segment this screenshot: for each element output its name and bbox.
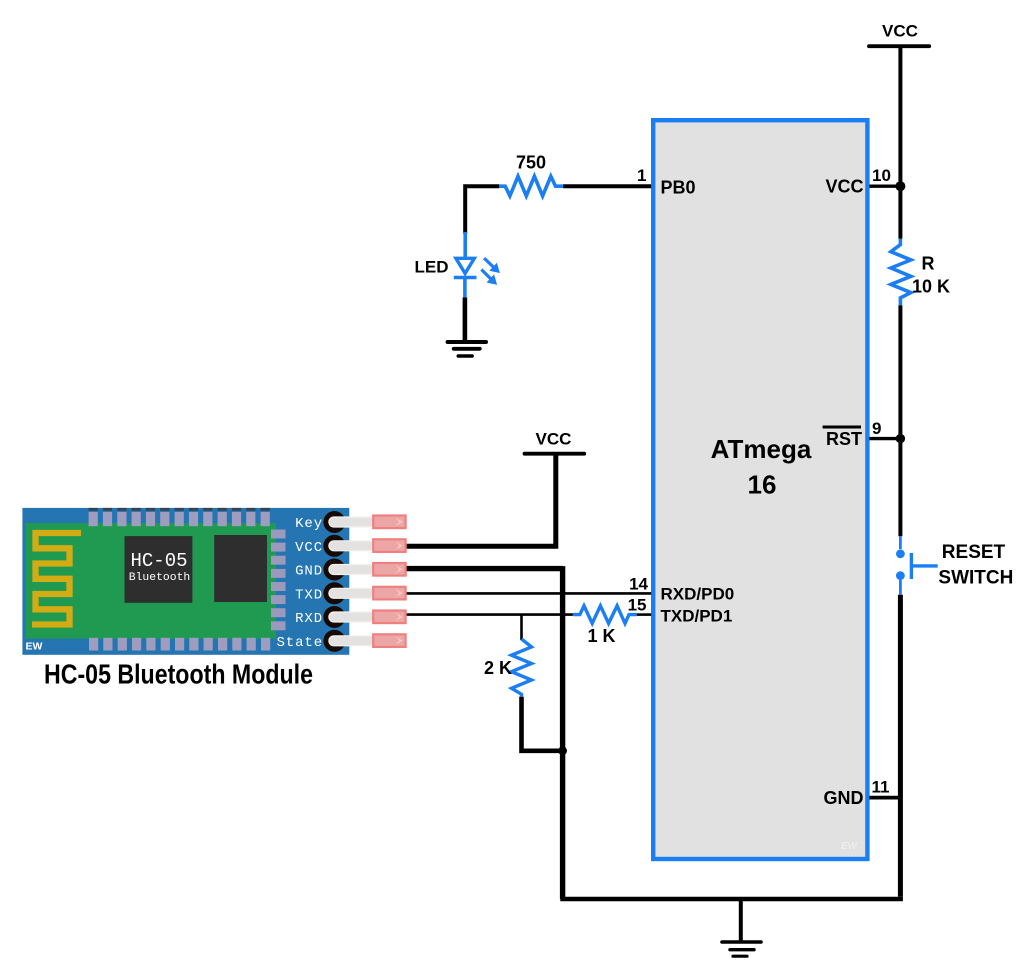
svg-text:RXD/PD0: RXD/PD0 bbox=[661, 585, 735, 604]
wire: LED to ground black bbox=[463, 298, 468, 344]
power symbol VCC (top right) bbox=[869, 22, 929, 47]
pushbutton SW1 bottom contact bbox=[896, 571, 905, 580]
HC-05 solder pads right column bbox=[271, 530, 286, 631]
svg-text:R: R bbox=[922, 254, 935, 274]
svg-text:RST: RST bbox=[826, 429, 862, 449]
HC-05 solder pads top row bbox=[89, 512, 270, 526]
svg-text:Bluetooth: Bluetooth bbox=[129, 572, 191, 584]
svg-text:ATmega: ATmega bbox=[711, 434, 812, 464]
IC U1 name label ATmega 16 bbox=[711, 434, 812, 500]
resistor R 10K bbox=[891, 239, 911, 306]
wire: HC-05 GND pin right then down bbox=[405, 566, 563, 899]
junction node at pin 9 bbox=[896, 434, 905, 443]
HC-05 chip with label bbox=[125, 536, 193, 603]
svg-text:RXD: RXD bbox=[295, 611, 323, 627]
wire: R 10K to RST junction to switch bbox=[898, 306, 902, 537]
LED D1 cathode bar bbox=[454, 276, 477, 280]
wire: HC-05 TXD to pin 14 bbox=[405, 592, 651, 595]
HC-05 header pin tip highlights bbox=[396, 518, 403, 645]
wire: LED cathode blue lead bbox=[463, 278, 467, 299]
svg-text:LED: LED bbox=[415, 258, 449, 277]
HC-05 second chip bbox=[214, 535, 267, 602]
svg-text:11: 11 bbox=[872, 778, 890, 797]
svg-text:1 K: 1 K bbox=[587, 626, 615, 646]
svg-text:750: 750 bbox=[516, 153, 546, 173]
LED D1 triangle bbox=[456, 258, 474, 273]
svg-text:SWITCH: SWITCH bbox=[938, 568, 1013, 589]
svg-text:VCC: VCC bbox=[825, 177, 863, 197]
HC-05 header pin tips bbox=[373, 516, 405, 647]
svg-text:16: 16 bbox=[748, 470, 777, 500]
svg-text:14: 14 bbox=[629, 574, 648, 593]
LED D1 light arrow 1 bbox=[484, 258, 499, 272]
wire: stub to bottom ground symbol bbox=[739, 899, 743, 942]
pushbutton SW1 actuator bbox=[910, 553, 913, 579]
resistor 2 K bbox=[512, 639, 532, 697]
svg-text:10 K: 10 K bbox=[912, 277, 950, 297]
HC-05 through-hole rings bbox=[323, 511, 345, 652]
svg-text:EW: EW bbox=[26, 641, 43, 653]
svg-text:2 K: 2 K bbox=[484, 658, 512, 678]
resistor 750 bbox=[499, 176, 563, 196]
svg-text:HC-05: HC-05 bbox=[130, 550, 187, 572]
wire: 1K to pin 15 bbox=[637, 613, 652, 616]
LED D1 light arrow 2 bbox=[481, 270, 496, 285]
svg-text:VCC: VCC bbox=[882, 22, 918, 41]
HC-05 module PCB (blue board) bbox=[22, 508, 349, 655]
wire: pin 9 RST stub bbox=[869, 437, 900, 440]
IC U1 ATmega16 body bbox=[653, 120, 867, 859]
HC-05 pin name labels bbox=[276, 516, 323, 651]
svg-text:RESET: RESET bbox=[942, 542, 1006, 563]
wire: LED anode blue lead bbox=[463, 232, 467, 257]
svg-text:TXD/PD1: TXD/PD1 bbox=[661, 607, 733, 626]
wire: switch down right side to bottom rail bbox=[898, 595, 903, 897]
wire: pin 10 VCC stub bbox=[869, 184, 900, 187]
wire: pin 11 GND stub bbox=[869, 796, 900, 800]
junction node on GND drop bbox=[558, 746, 567, 755]
HC-05 solder pads bottom row bbox=[89, 638, 270, 651]
wire: HC-05 RXD to 1K resistor bbox=[405, 613, 573, 616]
svg-text:15: 15 bbox=[628, 596, 647, 615]
HC-05 antenna trace bbox=[32, 533, 81, 625]
HC-05 castellation ticks top bbox=[89, 508, 270, 511]
pushbutton SW1 top contact bbox=[899, 536, 902, 549]
svg-text:PB0: PB0 bbox=[661, 178, 696, 198]
svg-text:GND: GND bbox=[824, 788, 864, 808]
ground symbol (LED) bbox=[448, 342, 486, 356]
svg-text:GND: GND bbox=[295, 564, 323, 580]
HC-05 green daughter board bbox=[26, 523, 277, 639]
svg-text:9: 9 bbox=[872, 419, 881, 438]
power symbol VCC (middle) bbox=[525, 430, 585, 454]
wire: PB0 net horizontal (pin 1 to 750 resistor to LED corner) bbox=[465, 186, 651, 234]
svg-text:State: State bbox=[276, 635, 323, 651]
svg-text:1: 1 bbox=[637, 166, 646, 185]
wire: VCC bar down to resistor R bbox=[898, 46, 902, 239]
HC-05 header pin shafts bbox=[329, 517, 375, 646]
junction node at pin 10 bbox=[895, 181, 905, 191]
svg-text:10: 10 bbox=[872, 166, 891, 185]
wire: bottom ground rail bbox=[560, 897, 903, 902]
svg-text:HC-05 Bluetooth Module: HC-05 Bluetooth Module bbox=[44, 659, 313, 690]
resistor 1 K bbox=[573, 606, 637, 624]
wire: 2K bottom elbow to GND drop bbox=[522, 697, 563, 751]
svg-text:TXD: TXD bbox=[295, 588, 323, 604]
wire: RXD net drop to 2K bbox=[520, 615, 523, 640]
ground symbol (bottom) bbox=[722, 942, 761, 956]
wire: VCC mid down and to HC-05 VCC pin bbox=[405, 454, 556, 547]
svg-text:VCC: VCC bbox=[536, 430, 572, 449]
svg-text:Key: Key bbox=[295, 516, 323, 532]
svg-text:EW: EW bbox=[841, 841, 859, 852]
svg-text:VCC: VCC bbox=[295, 540, 323, 556]
